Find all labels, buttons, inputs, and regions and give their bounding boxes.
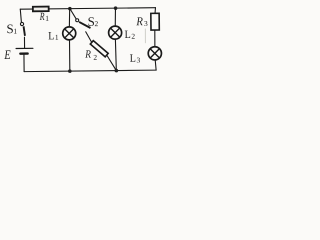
- battery E long plate: [16, 47, 33, 49]
- wire node A to switch S2 contact: [70, 9, 76, 19]
- wire switch S2 to resistor R2: [86, 32, 92, 43]
- wire lamp L1 to bottom wire: [68, 40, 70, 71]
- wire left upper (corner to switch S1): [20, 9, 21, 22]
- svg-text:E: E: [3, 48, 10, 62]
- node B junction dot on top wire: [114, 6, 118, 10]
- wire top-right corner down to resistor R3: [154, 8, 157, 14]
- wire node B down to lamp L2: [114, 8, 117, 26]
- resistor R1: [33, 7, 49, 12]
- svg-text:R: R: [84, 49, 91, 61]
- label E: [3, 48, 10, 62]
- svg-text:2: 2: [94, 19, 98, 28]
- label S2: [88, 14, 99, 29]
- battery E short plate: [20, 52, 27, 54]
- wire top from left corner to right corner: [20, 8, 155, 9]
- svg-text:1: 1: [13, 27, 17, 36]
- node junction dot bottom middle (L2 and R2 branch): [115, 69, 119, 73]
- switch S2 contact: [76, 19, 79, 22]
- wire bottom from left corner to right corner: [24, 70, 156, 71]
- svg-text:1: 1: [45, 14, 49, 23]
- wire resistor R3 to lamp L3: [154, 30, 156, 47]
- svg-text:3: 3: [136, 56, 140, 65]
- switch S1 blade: [24, 26, 25, 36]
- svg-text:1: 1: [55, 33, 59, 42]
- label L3: [130, 53, 141, 65]
- node A junction dot on top wire: [68, 7, 72, 11]
- lamp L2: [109, 26, 122, 39]
- label R1: [39, 11, 49, 24]
- svg-text:L: L: [48, 31, 54, 43]
- resistor R2: [90, 41, 108, 57]
- wire node A down to lamp L1: [68, 9, 71, 27]
- label R3: [135, 16, 148, 29]
- label L1: [48, 31, 59, 43]
- label R2: [84, 49, 97, 62]
- wire lamp L2 to bottom junction: [114, 39, 117, 70]
- svg-text:R: R: [39, 11, 45, 24]
- label S1: [6, 21, 17, 36]
- lamp L1: [63, 27, 76, 40]
- wire switch S1 to battery: [23, 37, 25, 48]
- wire battery to bottom-left corner: [23, 55, 25, 72]
- svg-text:R: R: [135, 16, 143, 29]
- wire resistor R2 to bottom junction: [107, 55, 117, 71]
- svg-text:2: 2: [93, 53, 97, 62]
- node junction dot bottom left (L1 branch): [68, 69, 72, 73]
- svg-text:3: 3: [144, 19, 148, 28]
- switch S2 blade: [79, 22, 90, 28]
- wire lamp L3 to bottom-right corner: [154, 60, 157, 70]
- label L2: [125, 29, 136, 41]
- svg-text:2: 2: [131, 32, 135, 41]
- resistor R3: [151, 13, 159, 30]
- wire faint scan crease near R3: [144, 29, 146, 43]
- svg-text:L: L: [130, 53, 136, 65]
- svg-text:L: L: [125, 29, 131, 41]
- lamp L3: [148, 47, 161, 60]
- switch S1 pivot contact: [20, 22, 23, 25]
